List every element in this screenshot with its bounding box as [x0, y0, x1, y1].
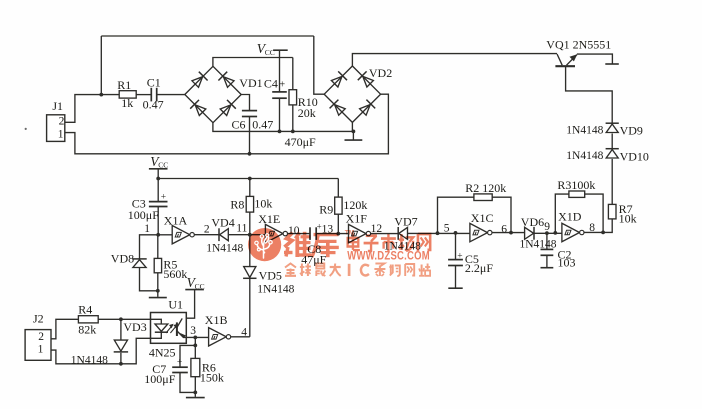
svg-text:VD10: VD10 — [620, 149, 649, 163]
svg-text:VQ1 2N5551: VQ1 2N5551 — [546, 37, 611, 51]
svg-text:X1F: X1F — [346, 212, 368, 226]
svg-text:10k: 10k — [254, 196, 272, 210]
svg-text:VD4: VD4 — [211, 216, 234, 230]
svg-text:12: 12 — [371, 223, 383, 235]
svg-text:10k: 10k — [619, 212, 637, 226]
svg-text:1N4148: 1N4148 — [71, 354, 108, 366]
svg-text:X1E: X1E — [258, 212, 280, 226]
svg-text:1: 1 — [38, 344, 44, 356]
svg-text:1N4148: 1N4148 — [257, 283, 294, 295]
svg-text:+: + — [177, 358, 182, 368]
svg-text:J2: J2 — [33, 311, 44, 325]
svg-text:U1: U1 — [168, 297, 183, 311]
svg-text:2: 2 — [204, 223, 210, 235]
svg-text:120k: 120k — [343, 198, 367, 212]
svg-text:VD1: VD1 — [239, 76, 262, 90]
svg-text:R2 120k: R2 120k — [465, 181, 506, 195]
svg-text:R1: R1 — [117, 78, 131, 92]
svg-text:560k: 560k — [163, 267, 187, 281]
svg-text:103: 103 — [558, 256, 576, 270]
svg-text:150k: 150k — [200, 370, 224, 384]
svg-text:11: 11 — [236, 222, 247, 234]
svg-text:R9: R9 — [319, 202, 333, 216]
svg-text:VD6: VD6 — [521, 215, 544, 229]
svg-text:8: 8 — [589, 222, 595, 234]
svg-text:1N4148: 1N4148 — [566, 150, 603, 162]
svg-text:VD8: VD8 — [111, 251, 134, 265]
svg-text:R4: R4 — [78, 302, 92, 316]
svg-text:+: + — [317, 221, 322, 231]
svg-text:VD2: VD2 — [369, 66, 392, 80]
svg-text:1N4148: 1N4148 — [206, 242, 243, 254]
svg-text:0.47: 0.47 — [143, 98, 164, 112]
svg-text:+: + — [279, 79, 285, 90]
svg-text:VD3: VD3 — [123, 320, 146, 334]
svg-text:X1C: X1C — [471, 211, 494, 225]
svg-text:82k: 82k — [78, 322, 96, 336]
svg-text:100μF: 100μF — [144, 372, 175, 386]
svg-text:X1A: X1A — [164, 213, 188, 227]
svg-text:3: 3 — [190, 325, 196, 337]
svg-text:6: 6 — [501, 224, 507, 236]
svg-text:C4: C4 — [264, 77, 278, 91]
svg-text:0.47: 0.47 — [252, 117, 273, 131]
svg-text:1: 1 — [58, 129, 64, 141]
svg-text:470μF: 470μF — [285, 135, 316, 149]
svg-text:X1B: X1B — [205, 313, 228, 327]
svg-text:5: 5 — [444, 223, 450, 235]
svg-text:+: + — [457, 252, 462, 262]
svg-text:VD9: VD9 — [620, 124, 643, 138]
svg-text:1N4148: 1N4148 — [520, 238, 557, 250]
svg-text:C1: C1 — [147, 76, 161, 90]
svg-text:4N25: 4N25 — [149, 345, 176, 359]
svg-text:WWW.DZSC.COM: WWW.DZSC.COM — [347, 250, 430, 263]
svg-text:+: + — [161, 193, 166, 203]
svg-text:9: 9 — [544, 221, 550, 233]
svg-text:1N4148: 1N4148 — [566, 125, 603, 137]
svg-text:X1D: X1D — [558, 209, 582, 223]
svg-text:4: 4 — [241, 326, 247, 338]
svg-text:R3100k: R3100k — [557, 178, 595, 192]
svg-text:1: 1 — [144, 223, 150, 235]
svg-text:CC: CC — [265, 48, 275, 57]
svg-text:1k: 1k — [121, 96, 133, 110]
svg-text:J1: J1 — [52, 99, 63, 113]
svg-text:VD5: VD5 — [259, 268, 282, 282]
svg-text:20k: 20k — [298, 106, 316, 120]
svg-text:2: 2 — [59, 116, 65, 128]
svg-text:100μF: 100μF — [128, 208, 159, 222]
svg-text:R8: R8 — [230, 197, 244, 211]
svg-text:VD7: VD7 — [394, 214, 417, 228]
svg-text:C6: C6 — [232, 117, 246, 131]
svg-text:2.2μF: 2.2μF — [465, 261, 493, 275]
svg-text:2: 2 — [38, 331, 44, 343]
